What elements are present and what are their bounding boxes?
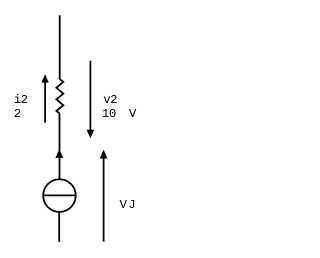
svg-text:J: J [128, 198, 135, 212]
wire bottom lead [58, 212, 60, 242]
arrow VJ (up) [103, 158, 105, 242]
svg-text:v2: v2 [103, 93, 117, 107]
svg-text:i2: i2 [14, 93, 28, 107]
wire resistor to current source [59, 114, 61, 179]
resistor R (zigzag) [56, 79, 63, 113]
current direction arrowhead on wire (points up) [55, 149, 63, 158]
svg-text:10: 10 [102, 107, 116, 121]
wire top lead [59, 15, 61, 79]
arrow V2 (down) [89, 61, 91, 131]
current source U1 circle [43, 179, 76, 212]
svg-text:2: 2 [14, 107, 21, 121]
svg-text:V: V [129, 107, 137, 121]
svg-text:V: V [120, 198, 128, 212]
current source horizontal bar [43, 194, 77, 196]
arrow i2 (up) [44, 82, 46, 123]
